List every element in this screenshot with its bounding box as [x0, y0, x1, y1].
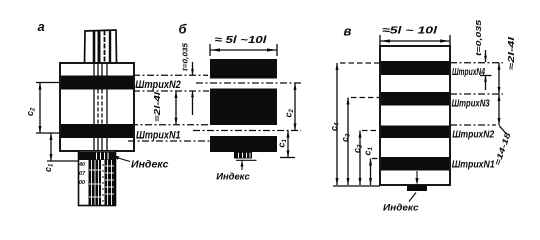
- svg-text:с1: с1: [277, 138, 289, 147]
- svg-text:ШтрихN2: ШтрихN2: [135, 79, 181, 91]
- svg-text:ШтрихN3: ШтрихN3: [452, 98, 490, 109]
- svg-text:Индекс: Индекс: [383, 203, 419, 214]
- svg-text:с4: с4: [329, 122, 341, 131]
- svg-text:с1: с1: [43, 163, 55, 172]
- svg-text:≈ 5l ~10l: ≈ 5l ~10l: [215, 34, 268, 46]
- svg-text:07: 07: [79, 171, 86, 177]
- svg-text:≈2l-4l: ≈2l-4l: [506, 36, 516, 70]
- svg-text:=2l-4l: =2l-4l: [153, 91, 162, 122]
- svg-text:ШтрихN1: ШтрихN1: [452, 159, 495, 170]
- svg-text:с3: с3: [340, 133, 352, 142]
- svg-text:б: б: [179, 22, 188, 37]
- svg-text:ШтрихN1: ШтрихN1: [136, 129, 181, 141]
- svg-text:t=0,035: t=0,035: [474, 19, 483, 56]
- svg-text:в: в: [344, 24, 352, 39]
- svg-text:с2: с2: [284, 108, 296, 117]
- svg-text:с1: с1: [363, 146, 375, 155]
- svg-text:а: а: [38, 19, 45, 34]
- svg-text:с2: с2: [25, 107, 37, 116]
- svg-text:00: 00: [79, 180, 85, 186]
- svg-text:Индекс: Индекс: [216, 172, 250, 183]
- svg-text:t=0,035: t=0,035: [181, 42, 190, 71]
- svg-text:40: 40: [78, 162, 85, 168]
- svg-text:≈5l ~ 10l: ≈5l ~ 10l: [382, 25, 438, 37]
- svg-text:ШтрихN2: ШтрихN2: [452, 129, 494, 140]
- svg-text:ШтрихN4: ШтрихN4: [452, 67, 485, 78]
- svg-text:Индекс: Индекс: [131, 160, 169, 171]
- svg-text:=14-18: =14-18: [493, 131, 513, 167]
